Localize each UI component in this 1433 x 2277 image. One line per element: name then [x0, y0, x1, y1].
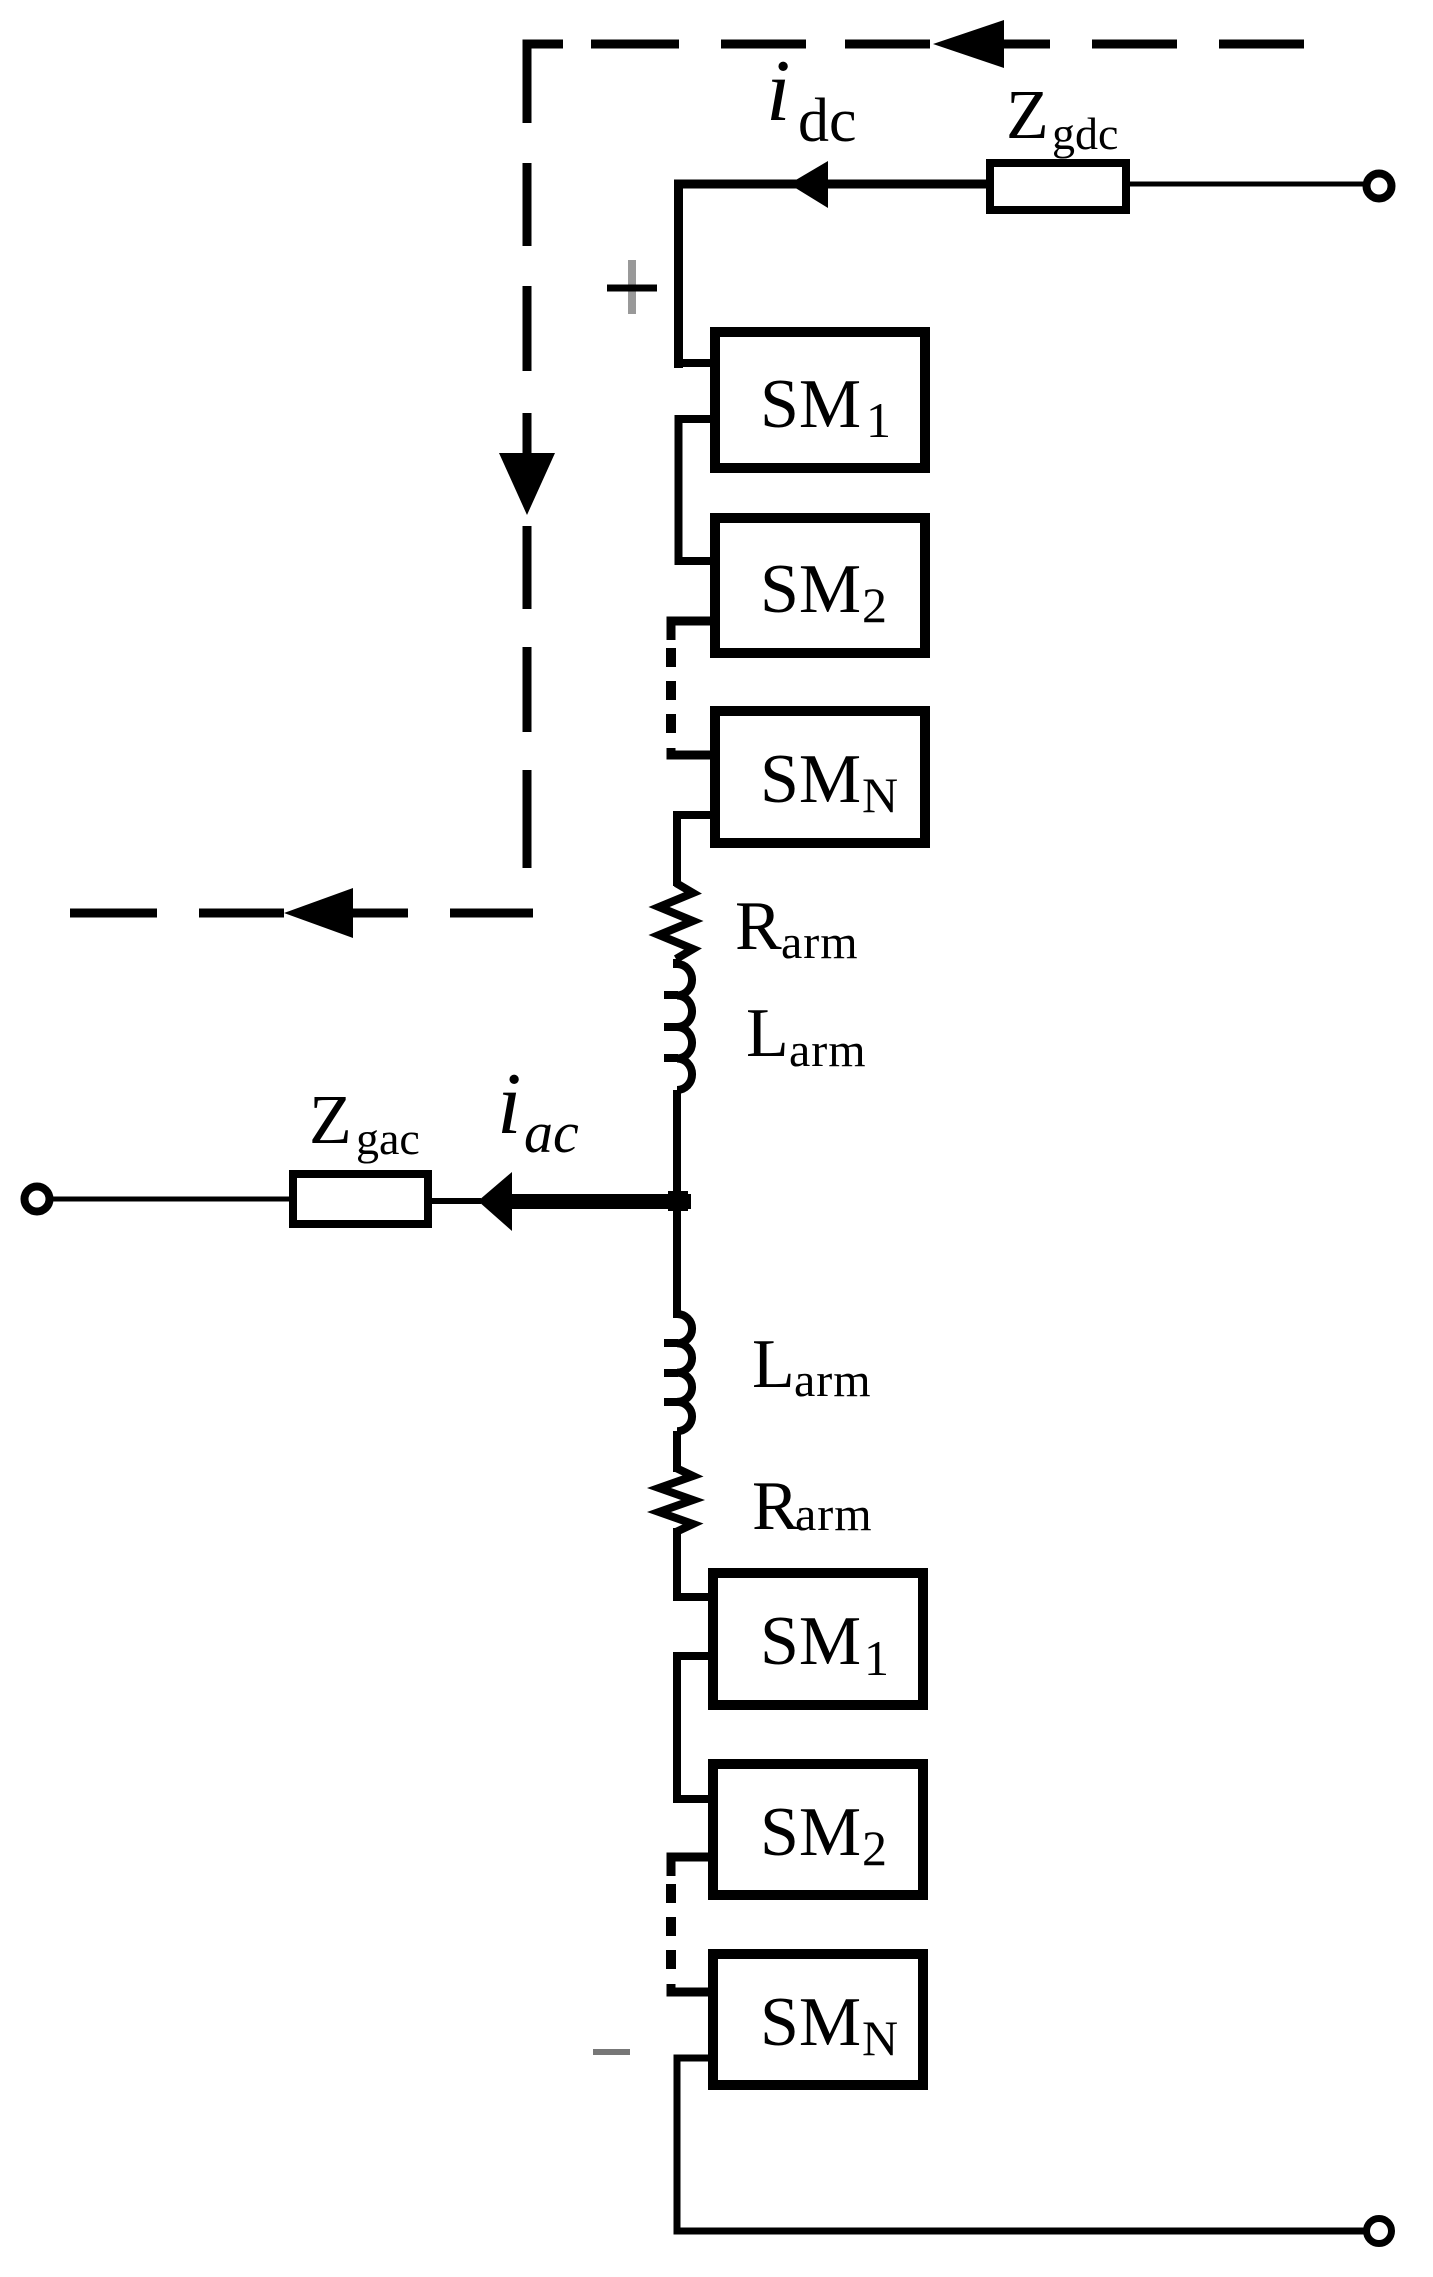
wire dash	[591, 40, 679, 49]
svg-text:SM: SM	[760, 551, 861, 628]
svg-text:N: N	[862, 767, 898, 823]
wire dash	[523, 526, 532, 609]
wire: SM2 exit stub	[671, 621, 710, 640]
svg-text:Z: Z	[309, 1082, 352, 1159]
svg-text:arm: arm	[794, 1354, 872, 1407]
svg-text:arm: arm	[789, 1024, 867, 1077]
wire dashed corner top-left	[523, 40, 564, 124]
wire: SM2 exit stub lower	[671, 1857, 710, 1876]
submodule SM2 (lower arm)	[713, 1764, 923, 1895]
resistor Z_gdc	[990, 163, 1126, 210]
wire dash	[523, 163, 532, 246]
wire: short link R_arm to L_arm	[673, 959, 681, 968]
wire dash	[845, 40, 930, 49]
terminal (dc -)	[1367, 2219, 1392, 2244]
svg-text:gdc: gdc	[1052, 108, 1118, 159]
arrow i_ac (points left)	[478, 1172, 512, 1231]
terminal (ac)	[25, 1187, 50, 1212]
dc current loop dashed path: left vertical segment	[499, 163, 555, 868]
svg-text:ac: ac	[524, 1100, 579, 1165]
svg-text:L: L	[746, 995, 789, 1072]
wire: junction down to lower L_arm	[673, 1205, 681, 1318]
wire dash	[523, 413, 532, 455]
svg-text:SM: SM	[760, 366, 861, 443]
wire: SMN lower to bottom dc rail	[677, 2058, 1365, 2231]
wire: dotted continuation (upper arm ellipsis)	[666, 648, 676, 742]
svg-text:2: 2	[862, 577, 887, 633]
node - (negative dc terminal polarity)	[593, 2049, 630, 2055]
svg-text:L: L	[752, 1326, 795, 1403]
wire: stub into SM1 upper	[674, 359, 710, 367]
svg-text:SM: SM	[760, 1984, 861, 2061]
arrow on dashed dc loop (points left)	[284, 888, 353, 938]
wire: dc top wire from corner to Zgdc	[679, 184, 987, 368]
svg-text:Z: Z	[1006, 77, 1049, 154]
node + (positive dc terminal polarity)	[607, 260, 657, 314]
svg-text:2: 2	[862, 1820, 887, 1876]
wire: arrow to Z_gac	[432, 1198, 481, 1204]
svg-text:1: 1	[864, 1630, 889, 1686]
wire dash	[523, 286, 532, 371]
arrow on dashed dc loop (points down)	[499, 453, 555, 515]
wire: R_arm into SM1 lower	[677, 1528, 710, 1597]
svg-text:1: 1	[866, 392, 891, 448]
svg-text:SM: SM	[760, 741, 861, 818]
wire: thick ac branch from junction	[510, 1194, 691, 1209]
resistor R_arm (lower)	[659, 1468, 693, 1532]
wire dash	[70, 909, 157, 918]
arrow i_dc (points left)	[789, 161, 828, 208]
wire dash	[721, 40, 806, 49]
resistor Z_gac	[293, 1174, 428, 1224]
svg-text:R: R	[735, 888, 782, 965]
wire: SM1 to SM2 lower	[677, 1656, 710, 1799]
svg-text:dc: dc	[798, 87, 857, 155]
submodule SM1 (upper arm)	[715, 332, 925, 468]
wire dash	[1219, 40, 1304, 49]
wire: SMN entry stub lower	[671, 1984, 710, 1992]
svg-text:R: R	[752, 1468, 799, 1545]
svg-text:arm: arm	[781, 916, 859, 969]
submodule SM2 (upper arm)	[715, 518, 925, 653]
wire: lower L_arm to R_arm	[673, 1431, 681, 1472]
wire: Zgdc to dc terminal	[1130, 182, 1365, 187]
svg-text:i: i	[766, 43, 790, 140]
svg-text:i: i	[497, 1056, 521, 1153]
wire dash	[523, 770, 532, 868]
svg-text:SM: SM	[760, 1603, 861, 1680]
wire dash	[1092, 40, 1177, 49]
resistor R_arm (upper)	[659, 883, 693, 959]
wire: L_arm to ac junction	[673, 1090, 681, 1205]
wire: SMN to R_arm	[677, 815, 710, 886]
arrow on dashed dc loop (points left)	[933, 20, 1004, 68]
submodule SMN (lower arm)	[713, 1954, 923, 2085]
svg-text:N: N	[862, 2010, 898, 2066]
inductor L_arm (upper)	[677, 964, 692, 1090]
wire: SMN entry stub	[671, 748, 710, 755]
svg-text:gac: gac	[356, 1113, 420, 1164]
dc current loop dashed path: bottom horizontal segment	[70, 888, 533, 938]
wire dash	[450, 909, 533, 918]
inductor L_arm (lower)	[677, 1314, 692, 1431]
svg-text:SM: SM	[760, 1794, 861, 1871]
svg-text:arm: arm	[795, 1488, 873, 1541]
wire: SM1 to SM2 upper	[679, 419, 711, 561]
wire dash	[523, 647, 532, 732]
wire: dotted continuation (lower arm ellipsis)	[666, 1884, 676, 1978]
submodule SMN (upper arm)	[715, 711, 925, 843]
wire dash	[199, 909, 284, 918]
wire: Z_gac to ac terminal	[53, 1197, 289, 1202]
node ac junction	[668, 1191, 688, 1211]
dc current loop dashed path: top horizontal segment	[523, 20, 1305, 123]
submodule SM1 (lower arm)	[713, 1573, 923, 1705]
terminal (dc +)	[1367, 174, 1392, 199]
